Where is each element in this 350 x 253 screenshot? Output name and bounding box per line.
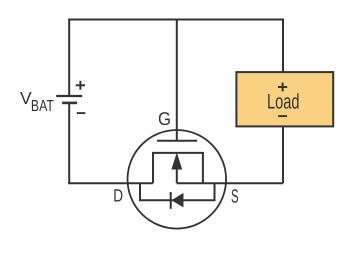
svg-text:G: G	[158, 108, 171, 129]
diode D1 cathode bar	[170, 192, 172, 209]
wire drain from left rail to MOSFET	[68, 182, 153, 184]
label battery plus	[76, 84, 85, 86]
label battery minus	[77, 112, 86, 114]
wire gate stem from top rail	[176, 20, 178, 142]
transistor Q1 MOSFET body circle	[128, 130, 227, 229]
channel left leg	[152, 153, 154, 183]
body diode loop right leg	[214, 183, 216, 200]
battery VBAT positive plate	[56, 95, 82, 97]
body arrow head	[172, 154, 181, 169]
channel bar top	[152, 152, 204, 154]
body diode loop bottom	[139, 199, 216, 201]
load box	[236, 72, 333, 126]
svg-text:S: S	[231, 187, 239, 208]
wire source inside to right rail	[177, 182, 283, 184]
label load plus	[278, 86, 287, 88]
wire left rail lower	[68, 104, 70, 184]
wire left rail upper	[68, 19, 70, 96]
wire top rail	[68, 19, 284, 21]
svg-text:D: D	[113, 186, 123, 206]
label load minus	[278, 115, 287, 117]
body arrow stem	[176, 168, 178, 183]
svg-text:Load: Load	[267, 91, 300, 114]
gate plate	[157, 140, 197, 142]
body diode loop left leg	[139, 183, 141, 200]
wire right rail lower	[282, 126, 284, 183]
svg-text:BAT: BAT	[31, 98, 54, 115]
battery VBAT negative plate	[62, 102, 77, 105]
channel right leg	[202, 153, 204, 183]
wire right rail upper	[282, 19, 284, 73]
diode D1 arrow	[172, 193, 183, 207]
